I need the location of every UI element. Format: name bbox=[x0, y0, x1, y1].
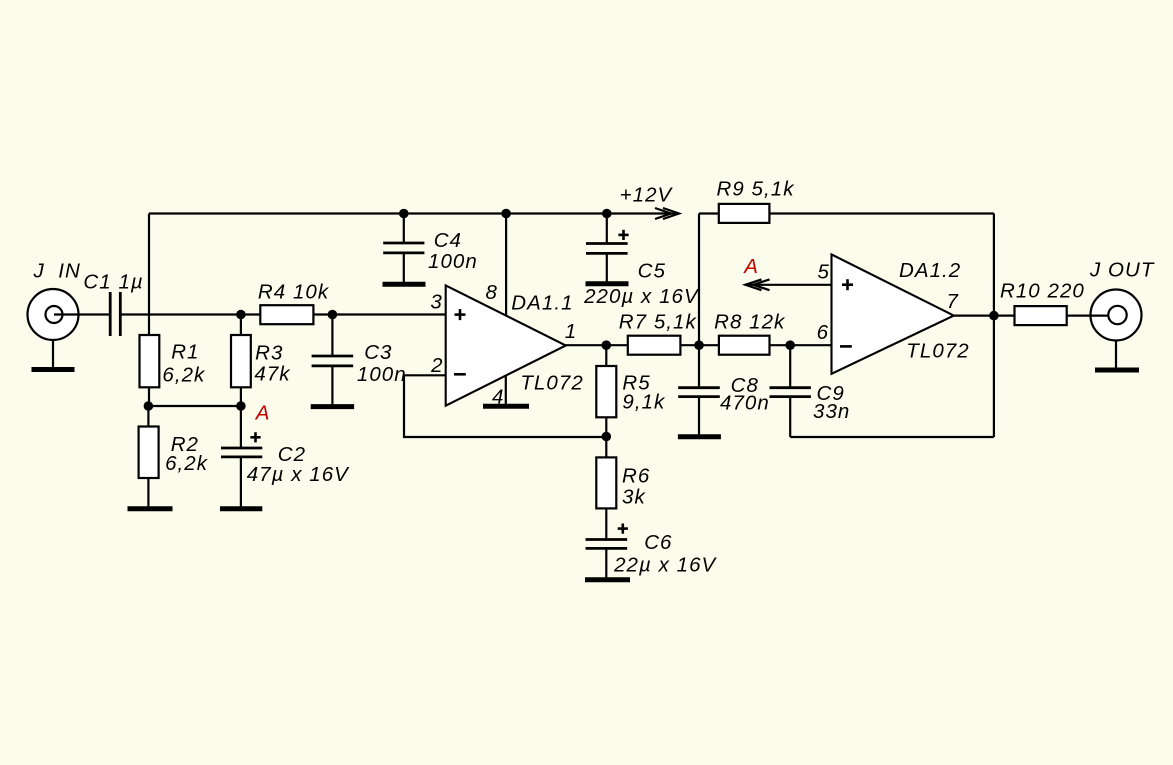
resistor R3 bbox=[231, 335, 251, 387]
+12V arrow bbox=[655, 208, 679, 219]
svg-text:R9 5,1k: R9 5,1k bbox=[717, 177, 796, 200]
wire (feedback right side down) bbox=[993, 214, 995, 438]
ground (C4) bbox=[383, 282, 426, 287]
svg-text:R10 220: R10 220 bbox=[1000, 280, 1085, 303]
svg-text:DA1.1: DA1.1 bbox=[511, 291, 573, 314]
svg-text:R6: R6 bbox=[622, 465, 650, 488]
resistor R4 bbox=[260, 305, 313, 324]
ground (C2) bbox=[220, 506, 262, 511]
capacitor C1 bbox=[110, 292, 120, 336]
svg-text:2: 2 bbox=[430, 354, 443, 377]
svg-text:A: A bbox=[254, 402, 271, 425]
svg-text:100n: 100n bbox=[357, 363, 407, 386]
connector J OUT bbox=[1067, 290, 1142, 368]
wire (pin 2 feedback loop) bbox=[404, 375, 606, 437]
resistor R9 and feedback wires bbox=[698, 214, 700, 346]
svg-text:22µ x 16V: 22µ x 16V bbox=[613, 554, 717, 577]
svg-text:470n: 470n bbox=[720, 392, 770, 415]
wire node A (R1/R2/R3/C2) bbox=[148, 405, 241, 407]
capacitor C9 bbox=[770, 345, 811, 437]
capacitor C2 (electrolytic) bbox=[221, 406, 262, 507]
svg-text:C1 1µ: C1 1µ bbox=[83, 271, 143, 294]
svg-text:7: 7 bbox=[947, 290, 960, 313]
svg-text:220µ x 16V: 220µ x 16V bbox=[583, 285, 700, 308]
svg-text:5: 5 bbox=[818, 261, 830, 284]
pin 4 + ground bbox=[505, 376, 507, 404]
ground (C3) bbox=[311, 404, 354, 409]
svg-text:R1: R1 bbox=[171, 341, 199, 364]
svg-text:J OUT: J OUT bbox=[1089, 258, 1155, 281]
connector J IN bbox=[28, 289, 79, 367]
op-amp DA1.2 bbox=[832, 254, 954, 373]
svg-text:TL072: TL072 bbox=[906, 340, 969, 363]
node (R4/C3 junction) bbox=[328, 310, 338, 320]
wire (DA1.2 output) bbox=[954, 315, 1015, 317]
node (signal/R3/R4 junction) bbox=[236, 310, 246, 320]
svg-text:C3: C3 bbox=[364, 341, 392, 364]
wire (rail down to R1) bbox=[148, 214, 150, 337]
svg-text:1: 1 bbox=[565, 320, 577, 343]
ground (R2) bbox=[128, 506, 173, 511]
capacitor C8 bbox=[678, 345, 720, 434]
svg-text:3: 3 bbox=[430, 291, 442, 314]
wire (DA1.1 output to R7) bbox=[566, 344, 628, 346]
svg-text:33n: 33n bbox=[813, 400, 850, 423]
ground (J IN) bbox=[32, 367, 75, 372]
capacitor C3 bbox=[312, 315, 354, 405]
wire +12V rail bbox=[149, 212, 679, 214]
pin 8 bbox=[505, 214, 507, 316]
wire (feedback bottom) bbox=[790, 436, 994, 438]
svg-text:47k: 47k bbox=[254, 363, 291, 386]
ground (C8) bbox=[678, 434, 721, 439]
wire (C1 to pin 3 of DA1.1) bbox=[122, 313, 261, 315]
resistor R10 bbox=[1015, 306, 1067, 325]
op-amp DA1.1 bbox=[446, 285, 566, 405]
svg-text:6: 6 bbox=[817, 321, 829, 344]
svg-text:9,1k: 9,1k bbox=[622, 390, 666, 413]
resistor R1 bbox=[140, 335, 160, 387]
svg-text:100n: 100n bbox=[428, 250, 478, 273]
svg-text:C6: C6 bbox=[644, 531, 672, 554]
svg-text:R3: R3 bbox=[255, 342, 283, 365]
svg-text:TL072: TL072 bbox=[520, 371, 583, 394]
svg-text:C5: C5 bbox=[638, 260, 666, 283]
node A arrow (to DA1.2 pin 5) bbox=[745, 279, 831, 290]
svg-text:6,2k: 6,2k bbox=[165, 452, 209, 475]
svg-text:+12V: +12V bbox=[620, 184, 674, 207]
resistor R6 bbox=[596, 457, 616, 508]
resistor R5 bbox=[596, 366, 616, 417]
capacitor C6 (electrolytic) bbox=[586, 524, 628, 578]
ground (C5) bbox=[586, 281, 629, 286]
resistor R8 bbox=[719, 336, 770, 355]
svg-text:DA1.2: DA1.2 bbox=[899, 259, 961, 282]
svg-text:R7 5,1k: R7 5,1k bbox=[619, 310, 698, 333]
svg-text:4: 4 bbox=[492, 386, 504, 409]
svg-text:J IN: J IN bbox=[33, 260, 81, 283]
resistor R2 bbox=[139, 427, 159, 479]
svg-text:47µ x 16V: 47µ x 16V bbox=[247, 463, 350, 486]
capacitor C4 bbox=[383, 214, 424, 283]
svg-text:8: 8 bbox=[486, 281, 498, 304]
svg-text:3k: 3k bbox=[622, 486, 646, 509]
wire (J IN to C1) bbox=[54, 313, 109, 315]
svg-text:C4: C4 bbox=[434, 229, 462, 252]
ground (C6) bbox=[585, 577, 630, 582]
svg-text:R4 10k: R4 10k bbox=[258, 280, 330, 303]
svg-text:A: A bbox=[742, 255, 759, 278]
capacitor C5 (electrolytic) bbox=[586, 214, 629, 282]
ground (J OUT) bbox=[1095, 368, 1139, 373]
resistor R7 bbox=[628, 336, 681, 355]
svg-text:6,2k: 6,2k bbox=[162, 364, 206, 387]
svg-text:R8 12k: R8 12k bbox=[714, 310, 786, 333]
